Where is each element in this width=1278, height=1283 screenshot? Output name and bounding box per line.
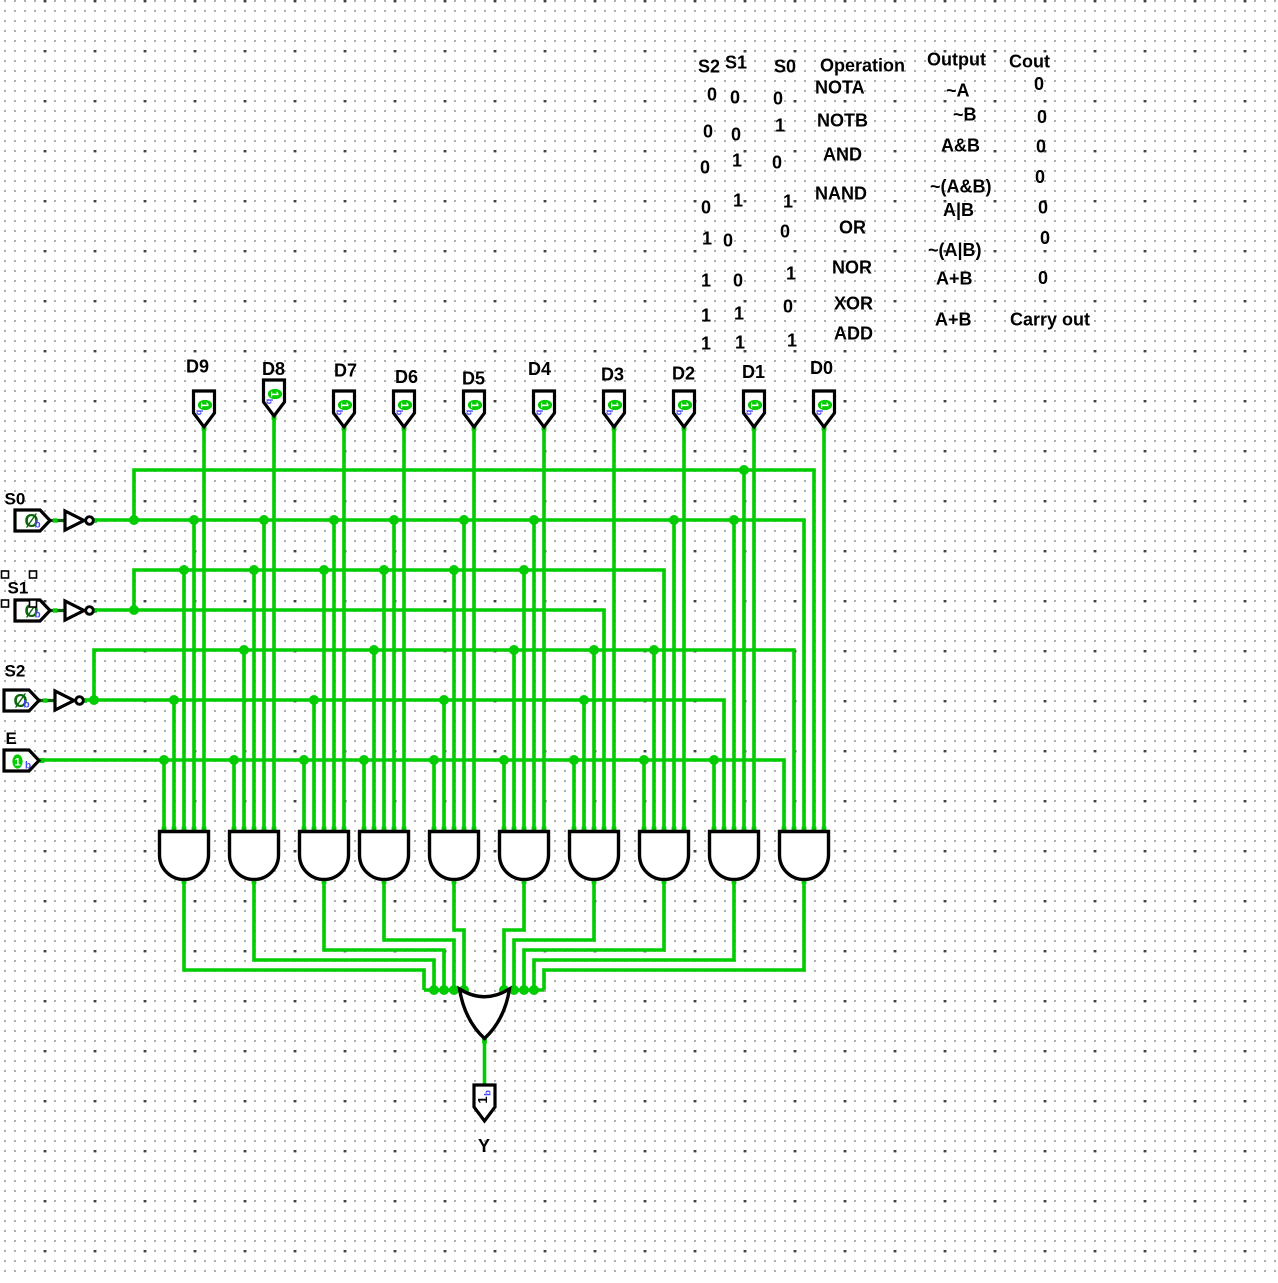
input pin D0 (814, 391, 835, 427)
svg-text:NAND: NAND (815, 184, 867, 204)
AND gate G2 (for D8) (230, 832, 279, 880)
svg-text:S1: S1 (8, 579, 29, 598)
svg-text:S0: S0 (5, 490, 26, 509)
port marker pin D7 tip (342, 426, 347, 431)
wire drop from y570 at x324 (322, 570, 326, 836)
svg-text:S2: S2 (5, 662, 26, 681)
svg-text:b: b (195, 410, 205, 416)
port marker pin Y top (482, 1084, 487, 1089)
svg-text:1: 1 (198, 402, 210, 408)
port marker NOT U1 output (92, 518, 97, 523)
wire S0 pin to NOT (false, dark green) (48, 519, 65, 522)
svg-text:0: 0 (1034, 74, 1044, 94)
output pin Y (474, 1085, 495, 1121)
svg-text:1: 1 (786, 264, 796, 284)
port marker pin D9 tip (202, 426, 207, 431)
port marker AND input at x794 (792, 827, 797, 832)
svg-text:0: 0 (773, 89, 783, 109)
wire G8 output wire (524, 878, 664, 990)
svg-text:NOTA: NOTA (815, 78, 865, 98)
port marker AND output at x524 (522, 879, 527, 884)
wire G10 output wire (544, 878, 804, 990)
svg-text:1: 1 (787, 331, 797, 351)
port dot S1 pin tip (48, 609, 52, 613)
port marker AND input at x504 (502, 827, 507, 832)
wire wire D5 vertical (472, 426, 476, 836)
svg-text:A&B: A&B (941, 136, 980, 156)
svg-text:Output: Output (927, 50, 986, 70)
svg-text:1: 1 (775, 116, 785, 136)
wire wire D2 vertical (682, 426, 686, 836)
wire drop from y760 at x364 (362, 760, 366, 836)
NOT gate U2 (S1 inverter) (65, 601, 93, 620)
wire drop from y650 at x244 (242, 650, 246, 836)
svg-text:D2: D2 (672, 364, 695, 384)
svg-text:AND: AND (823, 145, 862, 165)
input pin D8 (264, 380, 285, 416)
svg-text:b: b (605, 410, 615, 416)
AND gate G5 (for D5) (430, 832, 479, 880)
port marker AND input at x524 (522, 827, 527, 832)
port marker AND input at x814 (812, 827, 817, 832)
port marker AND input at x404 (402, 827, 407, 832)
svg-text:1: 1 (702, 229, 712, 249)
svg-text:0: 0 (731, 125, 741, 145)
port marker AND input at x514 (512, 827, 517, 832)
wire drop from y570 at x184 (182, 570, 186, 836)
port marker AND input at x364 (362, 827, 367, 832)
port marker AND input at x784 (782, 827, 787, 832)
wire G7 output wire (514, 878, 594, 990)
AND gate G1 (for D9) (160, 832, 209, 880)
AND gate G3 (for D7) (300, 832, 349, 880)
junction at (714,760) (709, 755, 719, 765)
junction at (644,760) (639, 755, 649, 765)
svg-text:0: 0 (1037, 107, 1047, 127)
wire wire D3 vertical (612, 426, 616, 836)
svg-text:0: 0 (723, 231, 733, 251)
port marker AND output at x734 (732, 879, 737, 884)
port marker AND input at x664 (662, 827, 667, 832)
input pin D3 (604, 391, 625, 427)
port dot S2 pin tip (38, 699, 42, 703)
junction at (504,760) (499, 755, 509, 765)
input pin S1 (15, 600, 50, 621)
port marker AND input at x244 (242, 827, 247, 832)
NOT gate U3 (S2 inverter) (55, 691, 83, 710)
svg-text:1: 1 (701, 334, 711, 354)
wire wire D7 vertical (342, 426, 346, 836)
svg-text:0: 0 (1035, 167, 1045, 187)
svg-text:1: 1 (338, 402, 350, 408)
wire ~S0 bus y520 (94, 520, 804, 836)
junction at (584,700) (579, 695, 589, 705)
junction at (504,990) (499, 985, 509, 995)
svg-text:~B: ~B (953, 105, 977, 125)
port marker AND input at x334 (332, 827, 337, 832)
port marker AND input at x314 (312, 827, 317, 832)
input pin S0 (15, 510, 50, 531)
wire drop from y760 at x164 (162, 760, 166, 836)
NOT gate U1 (S0 inverter) (65, 511, 93, 530)
svg-text:1: 1 (398, 402, 410, 408)
svg-text:1: 1 (475, 1096, 490, 1103)
svg-text:1: 1 (14, 756, 20, 768)
junction at (394,520) (389, 515, 399, 525)
svg-text:D1: D1 (742, 362, 765, 382)
port marker AND input at x184 (182, 827, 187, 832)
junction at (134,610) (129, 605, 139, 615)
junction at (374,650) (369, 645, 379, 655)
port marker AND input at x614 (612, 827, 617, 832)
svg-text:0: 0 (783, 297, 793, 317)
svg-text:b: b (35, 520, 41, 531)
port marker on S2 wire (43, 698, 47, 702)
junction at (304,760) (299, 755, 309, 765)
junction at (244,650) (239, 645, 249, 655)
port marker pin D5 tip (472, 426, 477, 431)
wire drop from y700 at x174 (172, 700, 176, 836)
port marker AND output at x324 (322, 879, 327, 884)
wire G5 output wire (454, 878, 464, 990)
wire drop from y470 at x744 (742, 470, 746, 836)
svg-text:1: 1 (748, 402, 760, 408)
svg-text:A+B: A+B (935, 310, 972, 330)
svg-text:b: b (25, 761, 31, 772)
wire wire D6 vertical (402, 426, 406, 836)
junction at (444,990) (439, 985, 449, 995)
input pin D9 (194, 391, 215, 427)
AND gate G9 (for D1) (710, 832, 759, 880)
port marker AND input at x194 (192, 827, 197, 832)
svg-text:1: 1 (818, 402, 830, 408)
wire drop from y760 at x234 (232, 760, 236, 836)
port marker AND input at x174 (172, 827, 177, 832)
svg-text:D4: D4 (528, 359, 551, 379)
port marker pin D3 tip (612, 426, 617, 431)
svg-text:OR: OR (839, 218, 866, 238)
wire ~S1 upper bus y570 (134, 570, 664, 836)
wire ~S2 upper bus y650 (94, 650, 794, 836)
AND gate G4 (for D6) (360, 832, 409, 880)
wire drop from y650 at x514 (512, 650, 516, 836)
svg-text:b: b (675, 410, 685, 416)
wire OR right wing wire (509, 988, 544, 992)
port marker AND input at x344 (342, 827, 347, 832)
port marker AND input at x754 (752, 827, 757, 832)
junction at (94,700) (89, 695, 99, 705)
svg-text:~(A&B): ~(A&B) (930, 177, 992, 197)
wire drop from y760 at x504 (502, 760, 506, 836)
port marker AND input at x734 (732, 827, 737, 832)
svg-text:Y: Y (478, 1136, 490, 1156)
wire G4 output wire (384, 878, 454, 990)
junction at (334,520) (329, 515, 339, 525)
svg-text:D9: D9 (186, 357, 209, 377)
port marker AND input at x234 (232, 827, 237, 832)
junction at (134,520) (129, 515, 139, 525)
port marker AND input at x454 (452, 827, 457, 832)
junction at (524,990) (519, 985, 529, 995)
svg-text:b: b (745, 410, 755, 416)
port marker AND input at x674 (672, 827, 677, 832)
svg-text:Carry out: Carry out (1010, 310, 1090, 330)
wire wire D4 vertical (542, 426, 546, 836)
junction at (234,760) (229, 755, 239, 765)
junction at (264,520) (259, 515, 269, 525)
wire drop from y570 at x254 (252, 570, 256, 836)
junction at (434,760) (429, 755, 439, 765)
svg-text:b: b (465, 410, 475, 416)
wire drop from y570 at x454 (452, 570, 456, 836)
port marker AND input at x474 (472, 827, 477, 832)
port marker NOT U2 output (92, 608, 97, 613)
svg-text:D3: D3 (601, 365, 624, 385)
wire drop from y700 at x314 (312, 700, 316, 836)
wire G2 output wire (254, 878, 434, 990)
svg-text:E: E (6, 729, 17, 748)
wire G9 output wire (534, 878, 734, 990)
svg-text:0: 0 (730, 88, 740, 108)
junction at (364,760) (359, 755, 369, 765)
svg-text:S2: S2 (698, 57, 720, 77)
OR gate U4 (10-input) (460, 989, 510, 1039)
input pin D4 (534, 391, 555, 427)
port marker AND input at x604 (602, 827, 607, 832)
wire drop from y520 at x264 (262, 520, 266, 836)
input pin E (4, 750, 39, 772)
input pin D5 (464, 391, 485, 427)
svg-text:b: b (335, 410, 345, 416)
svg-text:1: 1 (608, 402, 620, 408)
junction at (464,520) (459, 515, 469, 525)
svg-text:1: 1 (733, 191, 743, 211)
port marker AND input at x544 (542, 827, 547, 832)
svg-text:0: 0 (707, 85, 717, 105)
svg-text:0: 0 (701, 198, 711, 218)
junction at (514,650) (509, 645, 519, 655)
svg-text:S1: S1 (725, 53, 747, 73)
AND gate G7 (for D3) (570, 832, 619, 880)
port marker AND input at x394 (392, 827, 397, 832)
junction at (574,760) (569, 755, 579, 765)
port marker AND input at x714 (712, 827, 717, 832)
port marker AND input at x654 (652, 827, 657, 832)
svg-text:A+B: A+B (936, 269, 973, 289)
svg-text:D6: D6 (395, 367, 418, 387)
svg-text:1: 1 (735, 333, 745, 353)
port dot S0 pin tip (48, 519, 52, 523)
junction at (524,570) (519, 565, 529, 575)
svg-text:D5: D5 (462, 369, 485, 389)
svg-text:0: 0 (1036, 137, 1046, 157)
input pin D2 (674, 391, 695, 427)
svg-text:0: 0 (1038, 198, 1048, 218)
svg-text:0: 0 (1040, 228, 1050, 248)
svg-text:ADD: ADD (834, 324, 873, 344)
port marker AND input at x574 (572, 827, 577, 832)
junction at (454,570) (449, 565, 459, 575)
wire G6 output wire (504, 878, 524, 990)
svg-text:0: 0 (703, 122, 713, 142)
svg-text:b: b (483, 1090, 494, 1096)
svg-text:~A: ~A (946, 81, 970, 101)
junction at (674,520) (669, 515, 679, 525)
svg-text:0: 0 (772, 153, 782, 173)
wire drop from y650 at x654 (652, 650, 656, 836)
svg-text:b: b (24, 700, 30, 711)
svg-text:b: b (535, 410, 545, 416)
port marker AND input at x824 (822, 827, 827, 832)
input pin D6 (394, 391, 415, 427)
port marker AND input at x164 (162, 827, 167, 832)
port marker AND input at x434 (432, 827, 437, 832)
svg-text:1: 1 (538, 402, 550, 408)
wire G1 output wire (184, 878, 424, 990)
wire drop from y760 at x714 (712, 760, 716, 836)
svg-text:D0: D0 (810, 358, 833, 378)
wire S1 pin to NOT (false, dark green) (48, 609, 65, 612)
wire drop from y650 at x594 (592, 650, 596, 836)
svg-text:NOTB: NOTB (817, 111, 868, 131)
port marker AND input at x684 (682, 827, 687, 832)
svg-text:b: b (395, 410, 405, 416)
port marker AND output at x594 (592, 879, 597, 884)
wire wire D9 vertical (202, 426, 206, 836)
junction at (314,700) (309, 695, 319, 705)
wire drop from y520 at x394 (392, 520, 396, 836)
wire wire D1 vertical (752, 426, 756, 836)
svg-text:1: 1 (678, 402, 690, 408)
svg-text:0: 0 (1038, 268, 1048, 288)
port marker AND input at x374 (372, 827, 377, 832)
wire drop from y570 at x524 (522, 570, 526, 836)
wire drop from y650 at x374 (372, 650, 376, 836)
port marker AND input at x724 (722, 827, 727, 832)
wire ~S1 bus y610 (94, 610, 604, 836)
wire drop from y700 at x584 (582, 700, 586, 836)
junction at (444,700) (439, 695, 449, 705)
junction at (384,570) (379, 565, 389, 575)
junction at (194,520) (189, 515, 199, 525)
port marker AND input at x444 (442, 827, 447, 832)
svg-text:1: 1 (468, 402, 480, 408)
junction at (744,470) (739, 465, 749, 475)
port marker AND input at x304 (302, 827, 307, 832)
junction at (174,700) (169, 695, 179, 705)
AND gate G6 (for D4) (500, 832, 549, 880)
port marker pin E tip (40, 758, 45, 763)
svg-text:Cout: Cout (1009, 52, 1050, 72)
wire ~S2 bus y700 (84, 700, 724, 836)
svg-text:NOR: NOR (832, 258, 872, 278)
port marker pin D0 tip (822, 426, 827, 431)
svg-text:D7: D7 (334, 361, 357, 381)
svg-text:0: 0 (700, 158, 710, 178)
wire wire D8 vertical (272, 415, 276, 836)
junction at (254,570) (249, 565, 259, 575)
wire E bus y760 (39, 760, 784, 836)
port marker AND output at x254 (252, 879, 257, 884)
port marker OR output (482, 1039, 487, 1044)
AND gate G8 (for D2) (640, 832, 689, 880)
port marker AND input at x324 (322, 827, 327, 832)
port marker AND input at x744 (742, 827, 747, 832)
input pin D1 (744, 391, 765, 427)
wire S2 pin to NOT (false, dark green) (38, 699, 55, 702)
port marker AND input at x274 (272, 827, 277, 832)
svg-text:1: 1 (783, 192, 793, 212)
svg-text:S0: S0 (774, 57, 796, 77)
svg-text:A|B: A|B (943, 200, 974, 220)
AND gate G10 (for D0) (780, 832, 829, 880)
port marker pin D8 tip (272, 415, 277, 420)
junction at (514,990) (509, 985, 519, 995)
port marker AND input at x254 (252, 827, 257, 832)
junction at (534,990) (529, 985, 539, 995)
svg-text:1: 1 (701, 271, 711, 291)
wire drop from y520 at x464 (462, 520, 466, 836)
port marker on S0 wire (53, 518, 57, 522)
input pin S2 (4, 690, 39, 711)
wire drop from y520 at x734 (732, 520, 736, 836)
svg-text:0: 0 (733, 271, 743, 291)
svg-text:1: 1 (701, 306, 711, 326)
port marker AND output at x454 (452, 879, 457, 884)
wire wire D0 vertical (822, 426, 826, 836)
wire drop from y570 at x384 (382, 570, 386, 836)
svg-text:XOR: XOR (834, 294, 873, 314)
port marker AND output at x804 (802, 879, 807, 884)
wire drop from y700 at x444 (442, 700, 446, 836)
wire drop from y520 at x534 (532, 520, 536, 836)
port marker AND input at x584 (582, 827, 587, 832)
svg-text:0: 0 (780, 222, 790, 242)
wire drop from y520 at x194 (192, 520, 196, 836)
svg-text:~(A|B): ~(A|B) (928, 240, 982, 260)
port marker AND input at x464 (462, 827, 467, 832)
svg-text:b: b (35, 610, 41, 621)
wire OR output wire (483, 1037, 487, 1087)
wire drop from y760 at x304 (302, 760, 306, 836)
svg-text:D8: D8 (262, 359, 285, 379)
svg-text:1: 1 (734, 304, 744, 324)
wire ~S0 upper bus y470 (134, 470, 814, 836)
port marker pin D6 tip (402, 426, 407, 431)
wire drop from y760 at x644 (642, 760, 646, 836)
wire drop from y520 at x674 (672, 520, 676, 836)
junction at (434,990) (429, 985, 439, 995)
junction at (534,520) (529, 515, 539, 525)
port marker AND input at x804 (802, 827, 807, 832)
port marker AND input at x594 (592, 827, 597, 832)
wire drop from y760 at x434 (432, 760, 436, 836)
junction at (594,650) (589, 645, 599, 655)
port marker pin D4 tip (542, 426, 547, 431)
wire drop from y760 at x574 (572, 760, 576, 836)
junction at (454,990) (449, 985, 459, 995)
port marker AND output at x664 (662, 879, 667, 884)
port marker AND input at x264 (262, 827, 267, 832)
junction at (654,650) (649, 645, 659, 655)
svg-text:b: b (265, 399, 275, 405)
junction at (464,990) (459, 985, 469, 995)
junction at (734,520) (729, 515, 739, 525)
port marker pin D2 tip (682, 426, 687, 431)
svg-text:b: b (815, 410, 825, 416)
wire drop from y520 at x334 (332, 520, 336, 836)
junction at (184,570) (179, 565, 189, 575)
